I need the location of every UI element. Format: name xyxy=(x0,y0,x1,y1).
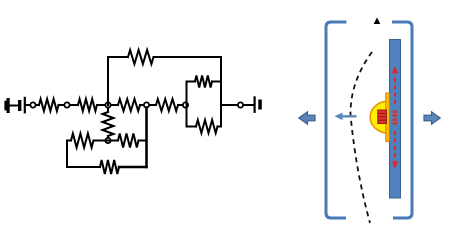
wire parallel bottom branch xyxy=(187,126,197,128)
wire vertical resistor stub bottom xyxy=(107,136,109,139)
resistor R4 xyxy=(156,99,178,111)
wire parallel top branch right xyxy=(212,81,221,83)
resistor Rp1 xyxy=(195,76,212,88)
node n6 xyxy=(238,102,243,107)
resistor R3 xyxy=(118,99,140,111)
wire second row right xyxy=(139,140,147,142)
wire feedback drop xyxy=(220,57,222,82)
wire bottom loop right xyxy=(119,166,147,168)
wire top feedback riser xyxy=(107,57,109,105)
red dashed arrow down xyxy=(392,131,398,169)
wire vertical resistor stub top xyxy=(107,108,109,113)
resistor R1 xyxy=(39,99,59,111)
wire output xyxy=(221,104,254,106)
node n5 xyxy=(183,102,188,107)
wire right loop vertical xyxy=(145,108,148,168)
resistor Rtop xyxy=(128,50,154,64)
resistor Rr1 xyxy=(71,134,94,148)
node n7 xyxy=(105,138,110,143)
battery thick bar xyxy=(18,100,21,111)
wire top feedback left xyxy=(108,56,128,58)
node A junction xyxy=(105,102,110,107)
yellow mass blob xyxy=(370,101,387,133)
wire parallel block right vertical xyxy=(220,82,222,127)
node n2 xyxy=(64,102,69,107)
wire xyxy=(10,105,19,107)
terminal right thin bar xyxy=(254,96,256,113)
wire xyxy=(59,104,79,106)
red piezo square xyxy=(378,110,387,124)
arrow up black xyxy=(374,18,381,25)
block arrow right outer xyxy=(424,112,440,124)
red dashed arrow up xyxy=(392,66,398,104)
bracket right xyxy=(392,22,412,218)
resistor Rb xyxy=(100,160,119,174)
wire top feedback right xyxy=(154,56,222,58)
wire second row mid xyxy=(94,140,119,142)
wire parallel block left vertical xyxy=(186,82,188,127)
bracket left xyxy=(326,22,347,218)
wire left loop vertical xyxy=(66,141,68,168)
wire bottom loop left xyxy=(67,166,100,168)
resistor Rv vertical xyxy=(103,112,114,136)
wire xyxy=(140,104,156,106)
thin arrow left inner xyxy=(335,113,357,121)
wire xyxy=(97,104,118,106)
resistor Rr2 xyxy=(118,134,139,148)
battery thin bar xyxy=(24,97,26,114)
wire xyxy=(26,104,39,106)
block arrow left outer xyxy=(299,112,315,124)
red marks on plate xyxy=(393,111,398,125)
wire parallel top branch xyxy=(187,81,196,83)
plate bar blue xyxy=(390,40,401,199)
orange strip xyxy=(386,93,390,142)
wire second row left xyxy=(67,140,71,142)
resistor R2 xyxy=(78,99,97,111)
terminal left electrode xyxy=(4,98,9,113)
resistor Rp2 xyxy=(196,120,218,133)
node n4 xyxy=(144,102,149,107)
red piezo stripes xyxy=(378,113,386,120)
dashed deflection curve xyxy=(350,52,372,223)
terminal right thick bar xyxy=(258,100,262,110)
node n1 xyxy=(30,102,35,107)
wire xyxy=(178,104,187,106)
wire parallel bottom branch right xyxy=(218,126,222,128)
